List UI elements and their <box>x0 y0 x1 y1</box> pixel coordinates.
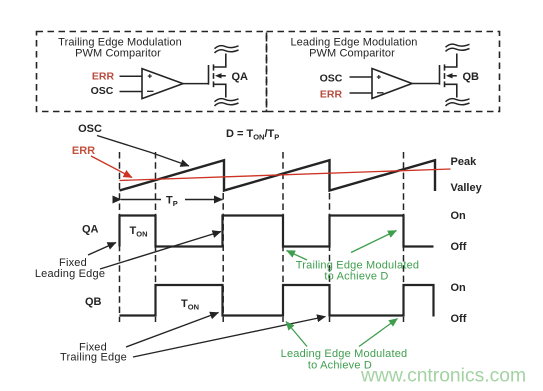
svg-text:ERR: ERR <box>320 88 343 100</box>
dashed timeline at t0 (period 1 start) <box>119 152 121 322</box>
arrow Fixed Leading Edge to QA pulse 1 rising edge <box>88 243 116 256</box>
green label: Leading Edge Modulated to Achieve D <box>281 348 408 371</box>
svg-text:QA: QA <box>232 71 249 83</box>
arrow from OSC label to sawtooth <box>97 136 189 167</box>
svg-text:Leading Edge Modulated: Leading Edge Modulated <box>281 348 408 360</box>
wire U2 output to QB gate <box>412 83 440 85</box>
connection squiggle below QB source <box>446 99 470 106</box>
svg-text:Off: Off <box>451 313 467 325</box>
dashed timeline at period 2 start <box>222 193 224 322</box>
op-amp U1 (trailing edge PWM comparator) <box>142 69 183 99</box>
transistor QA (NMOS) <box>209 54 226 98</box>
connection squiggle below QA source <box>215 99 239 106</box>
wire U1 output to QA gate <box>183 83 209 85</box>
wire OSC to U1 - input <box>120 91 143 93</box>
green label: Trailing Edge Modulated to Achieve D <box>296 260 419 283</box>
wire ERR to U2 - input <box>350 92 373 94</box>
svg-text:PWM Comparitor: PWM Comparitor <box>309 47 395 59</box>
svg-text:OSC: OSC <box>78 123 102 135</box>
label: Leading Edge Modulation title <box>290 37 417 60</box>
arrow Fixed Leading Edge to QA pulse 2 rising edge <box>100 232 221 270</box>
arrow Fixed Trailing Edge to QB pulse 1 falling edge <box>126 313 219 348</box>
wire ERR to U1 + input <box>120 75 143 77</box>
svg-text:to Achieve D: to Achieve D <box>324 271 388 283</box>
enclosure box: Trailing Edge Modulation PWM Comparitor <box>37 32 267 112</box>
svg-text:Peak: Peak <box>451 156 478 168</box>
svg-text:On: On <box>451 282 467 294</box>
red arrow from ERR label to ERR level line <box>91 156 132 178</box>
svg-text:Valley: Valley <box>451 182 483 194</box>
svg-text:OSC: OSC <box>91 85 114 97</box>
enclosure box: Leading Edge Modulation PWM Comparitor <box>267 32 500 112</box>
green arrow to QA pulse 2 falling edge <box>287 251 308 261</box>
svg-text:Leading Edge: Leading Edge <box>35 268 105 280</box>
svg-text:QB: QB <box>463 71 480 83</box>
op-amp U2 (leading edge PWM comparator) <box>372 69 412 99</box>
transistor QB (NMOS) <box>440 54 457 98</box>
dashed timeline at second ERR crossing <box>282 152 284 322</box>
green arrow to QB pulse 2 rising edge <box>286 322 307 347</box>
QB waveform (leading edge modulated) <box>120 285 434 317</box>
dashed timeline at period 3 start <box>329 193 331 322</box>
svg-text:www.cntronics.com: www.cntronics.com <box>360 365 526 386</box>
OSC sawtooth waveform <box>120 160 436 191</box>
connection squiggle above QA drain <box>215 46 239 53</box>
svg-text:QA: QA <box>82 224 99 236</box>
TP measurement arrow <box>121 195 223 209</box>
green arrow to QB pulse 3 rising edge <box>359 319 398 347</box>
svg-text:Off: Off <box>451 241 467 253</box>
svg-text:ERR: ERR <box>72 145 95 157</box>
svg-text:OSC: OSC <box>320 72 343 84</box>
label Fixed Leading Edge <box>35 257 105 280</box>
green arrow to QA pulse 3 falling edge <box>351 231 397 253</box>
svg-text:On: On <box>451 210 467 222</box>
svg-text:D = TON/TP: D = TON/TP <box>226 128 279 142</box>
dashed timeline at first ERR crossing <box>155 152 157 322</box>
label: Trailing Edge Modulation title <box>58 37 182 60</box>
svg-text:PWM Comparitor: PWM Comparitor <box>75 48 161 60</box>
arrow Fixed Trailing Edge to QB pulse 2 falling edge <box>133 317 326 358</box>
ERR level line (red) <box>120 169 451 181</box>
label Fixed Trailing Edge <box>60 342 127 364</box>
QA waveform (trailing edge modulated) <box>120 216 434 247</box>
wire OSC to U2 + input <box>350 76 373 78</box>
dashed timeline at third ERR crossing <box>403 152 405 322</box>
svg-text:ERR: ERR <box>92 70 115 82</box>
connection squiggle above QB drain <box>446 44 470 51</box>
svg-text:Trailing Edge: Trailing Edge <box>60 352 127 364</box>
svg-text:QB: QB <box>85 296 102 308</box>
